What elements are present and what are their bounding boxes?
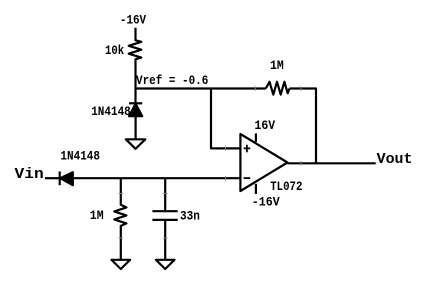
diode D2 1N4148 (horizontal, pointing left) [59,172,61,186]
ground (under R3) [112,260,131,269]
resistor R2 pin end ticks [255,86,301,90]
svg-text:Vref = -0.6: Vref = -0.6 [136,73,208,88]
op-amp V+ power pin [255,133,257,142]
svg-text:1M: 1M [270,58,284,73]
op-amp output pin end tick [300,161,302,165]
wire op-amp output to Vout [288,162,376,164]
svg-text:TL072: TL072 [270,179,302,194]
svg-text:16V: 16V [255,118,276,133]
svg-text:-16V: -16V [120,13,146,28]
wire Vref node horizontal (left part, to 1M feedback resistor) [136,87,266,89]
resistor R1 10k (vertical, -16V to Vref) [129,28,142,89]
resistor R3 pin end ticks [119,194,123,239]
op-amp + input marker [244,145,251,152]
diode D1 1N4148 (vertical, Vref to ground) [134,89,136,104]
ground (under C1) [156,260,175,269]
wire Vin to diode D2 [45,177,60,179]
capacitor C1 pin end ticks [163,194,167,239]
op-amp - input pin end tick [225,176,227,180]
resistor R3 1M (vertical, input net to ground) [114,178,126,260]
svg-text:-16V: -16V [252,194,280,209]
svg-text:1N4148: 1N4148 [91,104,131,119]
op-amp + input pin end tick [225,146,227,150]
op-amp U1 TL072 triangle [240,134,287,191]
resistor R2 1M (horizontal feedback) [266,82,290,95]
svg-text:33n: 33n [180,208,200,223]
op-amp V- power pin [255,184,257,194]
svg-text:1N4148: 1N4148 [60,148,100,163]
wire main input net to op-amp - input [73,177,241,179]
ground (under D1) [126,139,146,149]
capacitor C1 33n (input net to ground) [164,178,166,211]
pin end tick marks [119,86,301,238]
svg-text:Vout: Vout [377,151,413,168]
op-amp - input marker [244,177,251,179]
svg-text:1M: 1M [90,208,104,223]
wire junction drop to op-amp + input [211,89,240,149]
svg-text:10k: 10k [105,43,124,58]
wire feedback right + drop to output node [290,89,317,164]
svg-text:Vin: Vin [15,166,44,183]
